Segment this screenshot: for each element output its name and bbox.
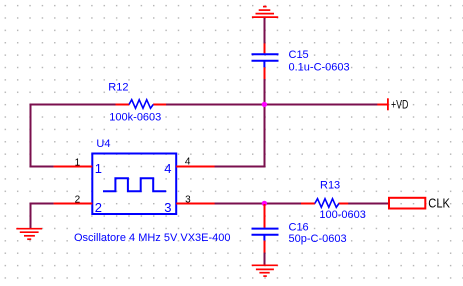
svg-text:Oscillatore 4 MHz 5V VX3E-400: Oscillatore 4 MHz 5V VX3E-400 (74, 232, 231, 244)
resistor R13 left pin (301, 203, 315, 205)
wire: net CLK, horizontal y=203 from R13 to CLK port (348, 203, 389, 205)
ground symbol bottom-right (below C16) (252, 265, 278, 276)
U4 pin 1 wire (54, 166, 93, 168)
wire: vertical from C16 to bottom ground (264, 252, 266, 265)
wire: net +VD, vertical x=264 from junction down to pin4 level (264, 105, 266, 168)
svg-text:+VD: +VD (391, 98, 409, 112)
wire: net GND left, horizontal into U4 pin 2 (30, 203, 54, 205)
svg-text:100k-0603: 100k-0603 (109, 111, 161, 123)
capacitor C16 bottom lead stub (263, 235, 265, 241)
wire: vertical from top ground to C15 (264, 17, 266, 44)
svg-text:C16: C16 (289, 221, 309, 233)
svg-text:4: 4 (164, 161, 171, 176)
svg-text:1: 1 (75, 157, 81, 168)
U4 pin 3 wire (176, 203, 214, 205)
junction node at (264,203) (262, 201, 267, 206)
oscillator U4 body (box) (92, 154, 176, 215)
svg-text:3: 3 (185, 195, 191, 206)
wire: vertical from C15 to junction (264, 79, 266, 105)
resistor R13 body (zigzag) (315, 199, 339, 208)
svg-text:4: 4 (185, 156, 191, 167)
svg-text:U4: U4 (96, 138, 110, 150)
U4 pin 2 wire (54, 203, 93, 205)
svg-text:3: 3 (164, 200, 171, 215)
power port +VD pin stub (377, 104, 388, 106)
svg-text:R12: R12 (108, 82, 128, 94)
capacitor C16 top pin (264, 204, 266, 228)
resistor R12 body (zigzag) (129, 100, 153, 109)
ground symbol top (above C15) (252, 7, 278, 18)
capacitor C15 bottom pin (264, 67, 266, 79)
capacitor C16 bottom pin (264, 241, 266, 253)
svg-text:R13: R13 (320, 179, 340, 191)
svg-text:0.1u-C-0603: 0.1u-C-0603 (289, 61, 350, 73)
wire: net R12-pin1, vertical at x=30 (30, 104, 32, 168)
wire: net +VD, horizontal y=104 from R12 to +VD stub (166, 104, 378, 106)
svg-text:CLK: CLK (428, 196, 450, 211)
svg-text:2: 2 (95, 200, 102, 215)
capacitor C16 top plate (252, 228, 279, 230)
U4 pin 4 wire (176, 166, 214, 168)
resistor R12 left pin (116, 104, 130, 106)
svg-text:50p-C-0603: 50p-C-0603 (289, 233, 347, 245)
resistor R12 right pin (153, 104, 166, 106)
svg-text:1: 1 (95, 161, 102, 176)
wire: net +VD, horizontal y=166 to U4 pin 4 (215, 166, 266, 168)
capacitor C15 bottom lead stub (263, 61, 265, 68)
svg-text:C15: C15 (289, 49, 309, 61)
wire: net GND left, vertical x=30 down to ground (30, 203, 32, 229)
power port +VD bar (387, 98, 389, 110)
ground symbol bottom-left (below U4 pin 2 net) (16, 229, 42, 240)
wire: net R12-pin1, horizontal into U4 pin 1 (30, 166, 54, 168)
capacitor C15 top pin (264, 43, 266, 53)
capacitor C15 bottom plate (252, 60, 279, 62)
capacitor C16 bottom plate (252, 234, 279, 236)
wire: net R12-pin1, horizontal y=104 left of R12 (30, 104, 116, 106)
capacitor C15 top plate (252, 53, 279, 55)
junction node at (264,104) (262, 102, 267, 107)
svg-text:100-0603: 100-0603 (319, 209, 366, 221)
wire: net CLK, horizontal y=203 from U4 pin 3 to R13 (215, 203, 302, 205)
svg-text:2: 2 (75, 195, 81, 206)
port CLK box (389, 198, 425, 209)
resistor R13 right pin (339, 203, 349, 205)
oscillator U4 square-wave symbol (103, 178, 166, 191)
